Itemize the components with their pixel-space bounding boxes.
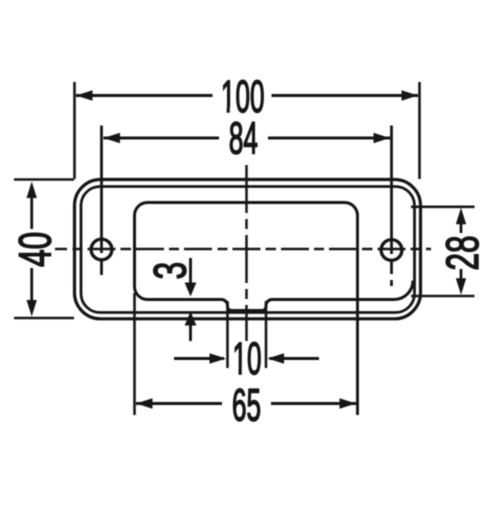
arrowhead 84 right bbox=[374, 133, 391, 143]
arrowhead 100 right bbox=[402, 90, 419, 100]
left hole centerline / 84 left extension bbox=[100, 126, 103, 276]
dim 10 line tails bbox=[174, 357, 224, 360]
arrowhead 65 right bbox=[340, 398, 357, 408]
arrowhead 3 down (upper) bbox=[185, 283, 197, 297]
svg-text:28: 28 bbox=[439, 235, 489, 270]
dim 84 line bbox=[104, 137, 220, 140]
svg-text:65: 65 bbox=[232, 380, 261, 430]
dim 28 line bbox=[460, 222, 463, 233]
trim foot of digit 1 in 100 bbox=[222, 107, 227, 114]
svg-text:10: 10 bbox=[232, 334, 261, 384]
lens right edge / 65 right extension line bbox=[356, 215, 359, 416]
10 left extension line bbox=[226, 301, 229, 368]
right mounting hole bbox=[381, 240, 402, 261]
arrowhead 10 right (points left) bbox=[268, 353, 285, 363]
dim 65 line bbox=[136, 402, 222, 405]
housing inner rim contour bbox=[81, 187, 415, 313]
right hole centerline / 84 right extension bbox=[390, 126, 393, 287]
dim 100 line bbox=[76, 94, 213, 97]
left mounting hole bbox=[91, 239, 112, 260]
housing outer outline bbox=[75, 180, 421, 319]
arrowhead 28 up bbox=[456, 208, 466, 225]
svg-text:3: 3 bbox=[146, 262, 196, 280]
svg-text:84: 84 bbox=[229, 113, 258, 163]
horizontal centerline dashes bbox=[55, 248, 431, 251]
dim 3 upper arrow stem bbox=[189, 258, 192, 283]
dim 100 left extension line bbox=[73, 82, 76, 179]
arrowhead 65 left bbox=[136, 398, 153, 408]
dim 100 right extension line bbox=[418, 82, 421, 179]
arrowhead 10 left (points right) bbox=[210, 353, 227, 363]
65 left extension line bbox=[133, 293, 136, 415]
lens outline with bottom notch bbox=[135, 203, 414, 311]
dim 28 extension lines bbox=[411, 206, 475, 209]
arrowhead 40 up bbox=[27, 182, 37, 199]
arrowhead 84 left bbox=[104, 133, 121, 143]
arrowhead 40 down bbox=[27, 300, 37, 317]
svg-text:40: 40 bbox=[11, 232, 61, 267]
dim 3 lower arrow stem bbox=[189, 314, 192, 341]
arrowhead 28 down bbox=[456, 278, 466, 295]
arrowhead 100 left bbox=[76, 90, 93, 100]
dim 40 extension lines bbox=[14, 178, 74, 181]
dim 40 line bbox=[30, 196, 33, 229]
trim foot of digit 1 in 10 bbox=[233, 369, 239, 376]
10 right extension line bbox=[265, 301, 268, 368]
arrowhead 3 up (lower) bbox=[185, 312, 197, 326]
vertical centerline dashes bbox=[245, 165, 248, 341]
